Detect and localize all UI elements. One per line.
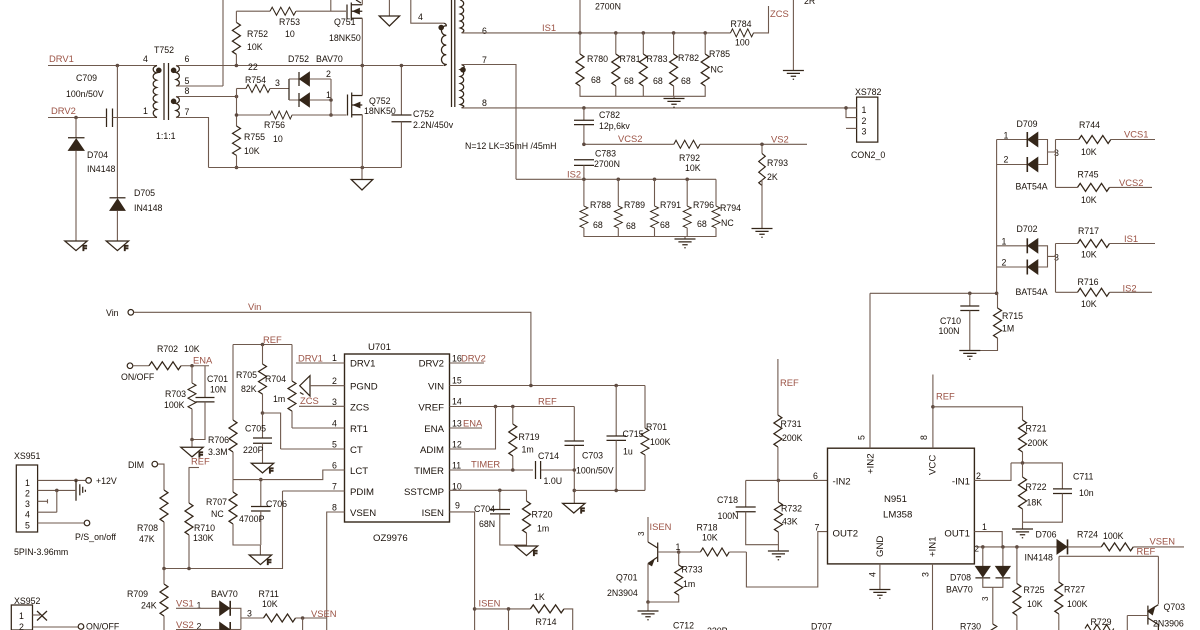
svg-text:4: 4 — [25, 510, 30, 520]
wire pin4 RT1 — [292, 427, 345, 429]
svg-text:6: 6 — [482, 26, 487, 36]
svg-text:2700N: 2700N — [594, 159, 620, 169]
capacitor C710 — [939, 293, 980, 350]
svg-text:100K: 100K — [650, 437, 671, 447]
svg-text:R716: R716 — [1078, 277, 1099, 287]
stub XS952 pin1 nc — [33, 611, 48, 621]
svg-text:10K: 10K — [244, 146, 260, 156]
vertical net R754-R755 — [236, 89, 238, 127]
svg-text:R730: R730 — [960, 622, 981, 630]
resistor R703 — [164, 366, 196, 440]
svg-text:3: 3 — [862, 127, 867, 137]
svg-text:R704: R704 — [265, 374, 286, 384]
resistor R793 — [759, 144, 788, 228]
resistor R745 — [1056, 170, 1153, 206]
junction C752 top — [400, 64, 404, 68]
svg-text:1: 1 — [19, 611, 24, 621]
junction D752 gate node — [329, 113, 333, 117]
svg-text:IN4148: IN4148 — [134, 203, 162, 213]
svg-text:C703: C703 — [582, 451, 603, 461]
svg-text:ADIM: ADIM — [420, 445, 444, 456]
wire D752 bracket to Q752 gate — [330, 79, 332, 115]
resistor R755 — [233, 126, 266, 156]
node REF label at R710 — [189, 456, 210, 468]
wire XS951 pin1 to +12V — [38, 479, 86, 481]
junction diode vertical bottom — [995, 292, 999, 296]
svg-text:R791: R791 — [660, 200, 681, 210]
resistor R756 — [237, 111, 347, 144]
svg-text:2: 2 — [976, 471, 981, 481]
capacitor C752 — [392, 66, 454, 168]
junction R719 top — [511, 405, 515, 409]
svg-text:2N3904: 2N3904 — [607, 588, 638, 598]
svg-text:22: 22 — [248, 62, 258, 72]
wire D704 stem — [75, 118, 77, 138]
wire pin16 DRV2 — [450, 362, 485, 364]
resistor R794 NC — [712, 179, 741, 228]
svg-text:IN4148: IN4148 — [1025, 553, 1053, 563]
svg-text:D707: D707 — [811, 622, 832, 630]
wire pin8 VCC REF stub — [932, 375, 934, 449]
wire pin5 +IN2 — [869, 293, 871, 448]
junction C715 top — [614, 384, 618, 388]
svg-text:GND: GND — [875, 536, 886, 557]
wire R718 to OUT2 — [746, 532, 827, 587]
resistor R724 — [1077, 530, 1184, 551]
svg-text:2: 2 — [1002, 258, 1007, 268]
resistor R792 — [674, 140, 701, 173]
junction DRV2/D704 — [74, 116, 78, 120]
wire pin5 riser up — [222, 0, 224, 86]
svg-text:7: 7 — [482, 55, 487, 65]
svg-text:68: 68 — [681, 76, 691, 86]
resistor R731 — [774, 415, 803, 480]
svg-text:R721: R721 — [1026, 424, 1047, 434]
wire pin2 -IN1 — [974, 463, 1011, 481]
wire base drop — [1126, 616, 1128, 630]
svg-text:R781: R781 — [620, 54, 641, 64]
resistor R701 — [641, 386, 671, 491]
svg-text:10K: 10K — [1027, 599, 1043, 609]
svg-text:15: 15 — [452, 376, 462, 386]
svg-text:DRV2: DRV2 — [419, 359, 444, 370]
bus under IS2 resistors — [584, 228, 716, 237]
junction R719 timer — [511, 468, 515, 472]
transformer T751 left winding — [439, 23, 446, 65]
resistor R718 — [679, 523, 747, 557]
svg-text:DRV1: DRV1 — [49, 53, 74, 64]
svg-text:OUT1: OUT1 — [944, 529, 970, 540]
svg-text:8: 8 — [332, 503, 337, 513]
svg-text:BAV70: BAV70 — [211, 589, 238, 599]
svg-text:C710: C710 — [940, 316, 961, 326]
svg-text:1: 1 — [982, 522, 987, 532]
svg-text:R717: R717 — [1078, 226, 1099, 236]
svg-text:1: 1 — [25, 478, 30, 488]
svg-text:C706: C706 — [266, 499, 287, 509]
junction C706 top — [259, 478, 263, 482]
svg-text:3: 3 — [921, 572, 931, 577]
svg-text:VSEN: VSEN — [311, 608, 337, 619]
wire OUT1 row — [976, 546, 1057, 548]
wire R784 to ZCS stub — [754, 6, 769, 33]
svg-text:2R: 2R — [804, 0, 815, 6]
wire Q701 emitter down — [647, 564, 649, 603]
dual diode D702 — [997, 224, 1059, 297]
junction pin2 tie — [55, 489, 59, 493]
wire Q703 base — [1127, 615, 1148, 617]
transistor Q751 — [329, 0, 362, 43]
IC U701 box — [345, 342, 450, 544]
svg-text:68N: 68N — [479, 519, 495, 529]
capacitor C709 — [66, 73, 113, 127]
svg-text:LM358: LM358 — [883, 510, 912, 521]
junction R755 bus — [235, 166, 239, 170]
node REF R731 stub — [778, 359, 799, 415]
junction REF branch — [931, 405, 935, 409]
svg-text:100K: 100K — [1067, 599, 1088, 609]
svg-text:9: 9 — [455, 501, 460, 511]
resistor R719 — [509, 407, 540, 471]
wire pin5 CT — [281, 448, 345, 450]
wire ISEN drop — [508, 609, 510, 630]
dual diode BAV70 vsense — [211, 589, 241, 630]
resistor R796 — [683, 178, 714, 230]
capacitor C782 — [574, 106, 630, 144]
wire pin3 ZCS — [299, 405, 345, 407]
svg-text:VS1: VS1 — [176, 598, 194, 609]
capacitor C701 — [192, 366, 228, 440]
ground triangle top middle — [379, 0, 399, 26]
svg-text:C711: C711 — [1073, 472, 1093, 482]
terminal P/S_on/off — [75, 520, 116, 542]
svg-text:10K: 10K — [1081, 250, 1097, 260]
junction C703 line timer — [573, 468, 577, 472]
svg-text:OZ9976: OZ9976 — [373, 533, 408, 544]
svg-text:18K: 18K — [1027, 498, 1043, 508]
svg-text:7: 7 — [185, 107, 190, 117]
svg-text:2: 2 — [975, 545, 980, 554]
resistor R725 — [1013, 547, 1045, 630]
svg-text:BAV70: BAV70 — [946, 585, 973, 595]
svg-text:R703: R703 — [165, 389, 186, 399]
resistor R714 — [530, 592, 572, 630]
junction R756 left — [235, 113, 239, 117]
wire D705 to ground — [116, 211, 118, 242]
label R706 3.3M — [208, 435, 229, 457]
svg-text:IS1: IS1 — [1124, 233, 1138, 244]
node VS1 — [176, 598, 219, 611]
junction on DRV1 wire — [116, 64, 120, 68]
bus under IS1 resistors — [580, 86, 705, 96]
resistor R783 — [639, 31, 667, 86]
svg-text:R788: R788 — [590, 200, 611, 210]
svg-text:R702: R702 — [157, 344, 178, 354]
svg-text:R782: R782 — [678, 53, 699, 63]
svg-text:82K: 82K — [241, 384, 257, 394]
terminal ON/OFF lower — [78, 622, 120, 630]
resistor R702 — [133, 344, 209, 370]
junction d708 right — [1001, 545, 1005, 549]
svg-text:100N: 100N — [939, 326, 960, 336]
svg-text:P/S_on/off: P/S_on/off — [75, 532, 116, 542]
wire D709 out riser — [1055, 140, 1057, 188]
resistor R721 — [1019, 420, 1049, 463]
svg-text:REF: REF — [936, 391, 955, 402]
junction Q752 source bus — [361, 166, 365, 170]
svg-text:18NK50: 18NK50 — [329, 33, 361, 43]
svg-text:OUT2: OUT2 — [833, 529, 859, 540]
svg-text:VCS2: VCS2 — [1119, 177, 1144, 188]
svg-text:4700P: 4700P — [239, 514, 265, 524]
resistor R707 — [206, 480, 260, 545]
wire bus C715 R701 — [574, 489, 645, 491]
wire XS952 pin2 — [33, 626, 79, 628]
svg-text:10: 10 — [285, 29, 295, 39]
svg-text:100n/50V: 100n/50V — [66, 89, 104, 99]
wire pin8 VSEN riser — [327, 512, 345, 630]
svg-text:VCS1: VCS1 — [1124, 129, 1149, 140]
wire pin6 LCT — [233, 470, 345, 480]
node ISEN bottom — [473, 598, 501, 611]
ground earth on IS1 bus — [664, 96, 685, 107]
svg-text:R701: R701 — [646, 422, 667, 432]
wire DRV1 to T752 pin4 — [48, 65, 157, 67]
ground F under R720 — [515, 545, 537, 558]
capacitor C718 — [717, 480, 778, 544]
svg-text:R725: R725 — [1024, 585, 1045, 595]
junction C704 top — [498, 489, 502, 493]
resistor R717 — [1056, 226, 1156, 260]
svg-text:2.2N/450v: 2.2N/450v — [413, 120, 454, 130]
svg-text:100n/50V: 100n/50V — [576, 466, 614, 476]
svg-text:N951: N951 — [884, 494, 907, 505]
svg-text:4: 4 — [868, 572, 878, 577]
svg-text:8: 8 — [482, 98, 487, 108]
svg-text:IN4148: IN4148 — [87, 164, 115, 174]
ground F under C706 — [249, 545, 271, 567]
svg-text:ENA: ENA — [463, 418, 483, 429]
svg-text:1.0U: 1.0U — [544, 476, 563, 486]
svg-text:REF: REF — [191, 456, 210, 467]
svg-text:R705: R705 — [236, 370, 257, 380]
svg-text:C714: C714 — [538, 451, 559, 461]
wire Q751 source down — [361, 18, 363, 65]
svg-text:3: 3 — [275, 78, 280, 88]
svg-text:R714: R714 — [536, 617, 557, 627]
wire XS951 pin5 — [38, 522, 85, 524]
svg-text:R793: R793 — [767, 158, 788, 168]
node ISEN Q701 stub — [637, 517, 671, 542]
ground earth under R793 — [752, 229, 773, 238]
capacitor C783 — [574, 149, 620, 180]
wire BAV70 out — [241, 617, 264, 619]
svg-text:3: 3 — [1054, 148, 1059, 158]
wire XS951 pin2 — [38, 489, 76, 491]
ground earth under R722 — [1012, 522, 1033, 538]
junction R703 top — [190, 364, 194, 368]
wire C709 to T752 pin1 — [113, 117, 158, 119]
wire REF to R721 — [933, 407, 1023, 420]
svg-text:47K: 47K — [139, 534, 155, 544]
svg-text:TIMER: TIMER — [414, 466, 444, 477]
transistor Q703 — [1148, 556, 1185, 630]
svg-text:1: 1 — [332, 353, 337, 363]
svg-text:C715: C715 — [623, 429, 644, 439]
svg-text:5: 5 — [185, 76, 190, 86]
svg-text:T752: T752 — [154, 45, 174, 55]
svg-text:7: 7 — [332, 482, 337, 492]
wire DRV2 to C709 — [48, 117, 107, 119]
svg-text:2K: 2K — [767, 172, 778, 182]
transformer T752 — [143, 45, 190, 141]
svg-text:Vin: Vin — [106, 308, 119, 318]
svg-text:1K: 1K — [534, 592, 545, 602]
wire pin14 VREF — [450, 406, 575, 408]
svg-text:D704: D704 — [87, 150, 108, 160]
wire pin7 PDIM — [283, 490, 345, 492]
svg-text:200K: 200K — [782, 433, 803, 443]
svg-text:R706: R706 — [208, 435, 229, 445]
svg-text:4: 4 — [418, 12, 423, 22]
junction ISEN drop — [507, 607, 511, 611]
svg-text:1: 1 — [1002, 237, 1007, 247]
wire pin4 GND — [879, 564, 881, 590]
svg-text:D752: D752 — [288, 54, 309, 64]
svg-text:ENA: ENA — [424, 424, 444, 435]
svg-text:2: 2 — [862, 116, 867, 126]
svg-text:10K: 10K — [702, 533, 718, 543]
wire R711 drop — [302, 618, 304, 630]
wire pin11 TIMER — [450, 469, 534, 471]
junction R703 bottom — [190, 438, 194, 442]
svg-text:DRV2: DRV2 — [461, 353, 486, 364]
svg-text:220P: 220P — [707, 626, 728, 630]
capacitor C711 — [1023, 472, 1094, 523]
svg-text:C712: C712 — [673, 621, 694, 630]
svg-text:ZCS: ZCS — [770, 8, 789, 19]
svg-text:VREF: VREF — [418, 403, 444, 414]
svg-text:XS782: XS782 — [855, 87, 882, 97]
svg-text:3: 3 — [25, 499, 30, 509]
resistor R780 — [576, 33, 608, 86]
svg-text:12: 12 — [452, 440, 462, 450]
svg-text:+IN1: +IN1 — [928, 536, 939, 557]
chassis ground right-facing — [76, 480, 85, 500]
transistor Q701 — [607, 542, 658, 598]
svg-text:ISEN: ISEN — [479, 598, 501, 609]
svg-text:C783: C783 — [595, 149, 616, 159]
svg-text:TIMER: TIMER — [471, 459, 500, 470]
svg-text:130K: 130K — [193, 533, 214, 543]
dual diode D752 — [289, 69, 331, 107]
junction R752 source line — [235, 64, 239, 68]
wire pin7 to IS2 bus — [462, 65, 517, 180]
transformer T751 core — [452, 0, 455, 107]
resistor R716 — [1056, 277, 1153, 309]
ground earth Q701 — [638, 602, 659, 620]
svg-text:R709: R709 — [127, 589, 148, 599]
svg-text:LCT: LCT — [350, 466, 368, 477]
svg-text:3: 3 — [1054, 253, 1059, 263]
svg-text:68: 68 — [593, 220, 603, 230]
svg-text:Vin: Vin — [248, 301, 261, 312]
svg-text:REF: REF — [1137, 546, 1156, 557]
wire pin10 SSTCMP — [450, 489, 527, 491]
wire T752 pin6 to source line — [176, 65, 444, 67]
node VS2 — [176, 619, 219, 630]
capacitor C704 — [474, 490, 527, 545]
svg-text:10N: 10N — [210, 385, 226, 395]
junction R731 R732 — [777, 479, 781, 483]
svg-text:4: 4 — [143, 54, 148, 64]
svg-text:CT: CT — [350, 445, 363, 456]
stub XS951 pin3 — [38, 499, 48, 503]
bus PDIM bottom — [164, 491, 283, 569]
connector XS782 — [844, 87, 885, 160]
svg-text:2N3906: 2N3906 — [1153, 619, 1184, 629]
svg-text:IS2: IS2 — [567, 169, 581, 180]
svg-text:13: 13 — [452, 419, 462, 429]
svg-text:10K: 10K — [262, 599, 278, 609]
wire stub top at Q751 gate — [330, 0, 332, 11]
svg-text:43K: 43K — [782, 517, 798, 527]
svg-text:3: 3 — [637, 531, 646, 536]
svg-text:1m: 1m — [683, 579, 695, 589]
wire D709 D702 common vertical — [996, 140, 998, 294]
svg-text:PGND: PGND — [350, 382, 378, 393]
svg-text:R796: R796 — [693, 200, 714, 210]
wire pin15 VIN — [450, 385, 646, 387]
svg-text:R719: R719 — [519, 432, 540, 442]
svg-text:C701: C701 — [207, 374, 228, 384]
capacitor C781 stub — [580, 0, 621, 33]
svg-text:IS1: IS1 — [542, 22, 556, 33]
svg-text:ON/OFF: ON/OFF — [86, 622, 120, 630]
svg-text:11: 11 — [452, 461, 461, 471]
svg-text:DIM: DIM — [128, 460, 144, 470]
ground F under R703 — [181, 440, 203, 459]
resistor R752 — [232, 22, 268, 54]
svg-text:10K: 10K — [1081, 195, 1097, 205]
svg-text:1: 1 — [143, 106, 148, 116]
svg-text:VSEN: VSEN — [350, 508, 376, 519]
svg-text:ENA: ENA — [193, 355, 213, 366]
svg-text:D708: D708 — [950, 573, 971, 583]
svg-text:CON2_0: CON2_0 — [851, 150, 885, 160]
svg-text:C705: C705 — [245, 424, 266, 434]
svg-text:R727: R727 — [1064, 585, 1085, 595]
svg-text:DRV1: DRV1 — [298, 353, 323, 364]
wire -IN2 — [746, 479, 828, 481]
wire pin8 to XS782 — [462, 107, 847, 109]
wire main transformer pin4 — [411, 0, 444, 23]
junction D752 pin1 — [329, 98, 333, 102]
resistor R709 — [127, 569, 168, 630]
junction R711 drop — [301, 616, 305, 620]
svg-text:100K: 100K — [164, 400, 185, 410]
svg-text:U701: U701 — [368, 342, 391, 353]
ground earth C718 R732 — [768, 551, 789, 560]
svg-text:1: 1 — [197, 601, 202, 611]
wire T752 pin7 down to gnd bus — [176, 118, 209, 168]
svg-text:2: 2 — [19, 622, 24, 630]
svg-text:R724: R724 — [1077, 530, 1098, 540]
wire pin2 PGND — [310, 385, 345, 387]
svg-text:D709: D709 — [1017, 119, 1038, 129]
dual diode D709 — [997, 119, 1059, 192]
svg-text:-IN2: -IN2 — [833, 477, 851, 488]
